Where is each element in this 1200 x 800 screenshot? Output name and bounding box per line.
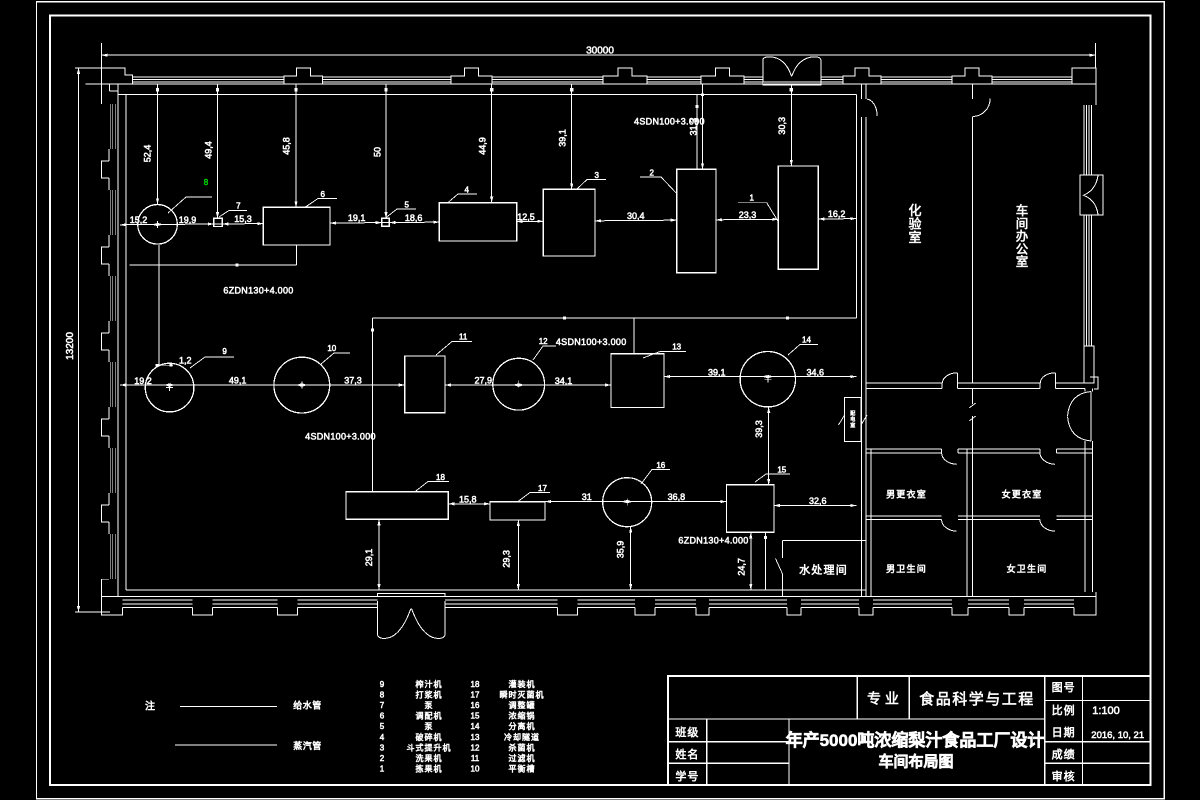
svg-text:学号: 学号 (675, 769, 699, 783)
svg-text:斗式提升机: 斗式提升机 (407, 742, 452, 752)
svg-text:成绩: 成绩 (1052, 748, 1076, 761)
svg-text:16: 16 (656, 461, 665, 470)
svg-text:45,8: 45,8 (282, 137, 292, 155)
svg-text:49,1: 49,1 (229, 376, 247, 386)
svg-text:15,8: 15,8 (459, 494, 477, 504)
equipment 11 (rect) (405, 356, 445, 413)
door into lab at partition top (867, 99, 877, 116)
svg-text:14: 14 (802, 336, 811, 345)
svg-text:31: 31 (582, 492, 592, 502)
lab door (south) (942, 373, 957, 383)
svg-text:办: 办 (1016, 229, 1029, 244)
svg-text:拣果机: 拣果机 (416, 764, 443, 774)
svg-text:11: 11 (471, 754, 480, 763)
svg-text:3: 3 (594, 171, 599, 180)
label 7 (219, 202, 247, 218)
svg-text:12,5: 12,5 (517, 212, 535, 222)
svg-text:9: 9 (222, 347, 227, 356)
legend equipment list (380, 679, 545, 774)
svg-text:室: 室 (908, 230, 921, 245)
svg-text:15,2: 15,2 (130, 215, 148, 225)
svg-text:30,3: 30,3 (777, 117, 787, 135)
vert dim 39,1 (557, 84, 573, 189)
svg-text:14: 14 (471, 722, 480, 731)
svg-text:34,6: 34,6 (807, 367, 825, 377)
svg-text:15,3: 15,3 (234, 214, 252, 224)
svg-text:29,1: 29,1 (364, 549, 374, 567)
label 11 (436, 333, 472, 356)
svg-text:专 业: 专 业 (867, 691, 899, 707)
svg-text:给水管: 给水管 (293, 700, 322, 711)
svg-text:女更衣室: 女更衣室 (1002, 489, 1043, 500)
svg-text:12: 12 (471, 743, 480, 752)
svg-text:23,3: 23,3 (739, 210, 757, 220)
svg-text:27,9: 27,9 (475, 375, 493, 385)
vert dim 29,1 (364, 519, 380, 590)
equipment 13 (rect) (611, 354, 664, 408)
equipment 15 (rect) (726, 485, 774, 532)
svg-text:16,2: 16,2 (828, 209, 846, 219)
right wall south section (1085, 377, 1098, 592)
dim chain top row (120, 209, 856, 226)
rooms west wall (870, 449, 872, 597)
svg-text:泵: 泵 (425, 701, 434, 710)
svg-text:8: 8 (380, 690, 385, 699)
vert dim 49,4 (204, 84, 220, 218)
label 12 (533, 337, 556, 360)
water pipe to eq6 (129, 245, 296, 266)
svg-text:比例: 比例 (1052, 703, 1076, 717)
svg-text:39,1: 39,1 (708, 367, 726, 377)
vert dim 50 (373, 84, 388, 218)
svg-text:1,2: 1,2 (179, 355, 192, 365)
bottom wall window strips (123, 600, 1075, 607)
svg-text:班级: 班级 (675, 726, 699, 739)
svg-text:洗果机: 洗果机 (416, 753, 443, 763)
svg-text:10: 10 (327, 344, 336, 353)
svg-text:年产5000吨浓缩梨汁食品工厂设计: 年产5000吨浓缩梨汁食品工厂设计 (786, 730, 1045, 750)
svg-text:室: 室 (1016, 254, 1029, 269)
svg-text:审核: 审核 (1052, 769, 1076, 783)
corridor divider (969, 389, 976, 449)
door into office (972, 98, 990, 116)
left wall window strips (110, 104, 115, 579)
dim 30000 top (102, 43, 1096, 84)
equipment 12 (circle) (493, 358, 545, 410)
svg-text:分离机: 分离机 (509, 721, 536, 731)
svg-text:19,2: 19,2 (134, 376, 152, 386)
equipment 10 (circle) (274, 357, 330, 413)
svg-text:18: 18 (436, 473, 445, 482)
svg-text:2: 2 (380, 754, 385, 763)
svg-text:3: 3 (380, 743, 385, 752)
svg-text:5: 5 (404, 201, 409, 210)
svg-text:5: 5 (380, 722, 385, 731)
vert dim 31,3 + steam drop (688, 84, 704, 169)
label 9 (190, 347, 234, 368)
svg-text:瞬时灭菌机: 瞬时灭菌机 (500, 689, 545, 699)
office door (south) (1040, 373, 1055, 383)
label 8 (green) (168, 178, 212, 213)
label 15 (755, 466, 790, 483)
svg-text:13: 13 (672, 343, 681, 352)
legend water pipe line (180, 700, 322, 711)
top wall inner face (86, 83, 1096, 85)
svg-text:39,1: 39,1 (557, 129, 567, 147)
washroom doors (942, 520, 957, 532)
svg-text:调整罐: 调整罐 (509, 700, 536, 710)
svg-text:6: 6 (380, 712, 385, 721)
circle center marks (154, 221, 771, 506)
label 18 (415, 473, 449, 492)
equipment 6 (rect) (263, 207, 330, 245)
svg-text:4SDN100+3.000: 4SDN100+3.000 (305, 432, 376, 442)
svg-text:24,7: 24,7 (736, 558, 746, 576)
title block texts (675, 681, 1144, 783)
svg-text:2: 2 (649, 169, 654, 178)
vert dim 35,9 (615, 527, 632, 590)
svg-text:16: 16 (471, 701, 480, 710)
vert dim 39,3 (754, 407, 770, 485)
right wall windows (1084, 105, 1092, 346)
top wall double door (763, 57, 821, 85)
right wall pier (1084, 346, 1094, 383)
svg-text:17: 17 (471, 690, 480, 699)
hoist box (839, 398, 868, 442)
top wall piers (102, 68, 1096, 105)
svg-text:34,1: 34,1 (555, 376, 573, 386)
svg-text:4: 4 (380, 733, 385, 742)
equipment 2 (rect) (677, 169, 716, 272)
top wall window strips (133, 77, 1073, 82)
dim chain middle row (120, 355, 856, 386)
svg-text:1: 1 (749, 194, 754, 203)
svg-text:榨汁机: 榨汁机 (416, 679, 443, 689)
water pipe along top wall (118, 93, 857, 95)
vert dim 44,9 (477, 84, 493, 203)
svg-text:31,3: 31,3 (688, 118, 698, 136)
wall between lab and office (971, 85, 973, 384)
svg-text:35,9: 35,9 (615, 541, 625, 559)
svg-text:图号: 图号 (1052, 681, 1076, 694)
dim chain bottom row (448, 492, 856, 507)
label 13 (643, 343, 686, 359)
svg-text:15: 15 (777, 466, 786, 475)
label 2 (640, 169, 677, 194)
right wall window symbol (1080, 175, 1103, 215)
dim 13200 left (65, 68, 125, 612)
equipment 8 (circle) (138, 205, 178, 245)
svg-text:过滤机: 过滤机 (509, 753, 536, 763)
svg-text:6ZDN130+4.000: 6ZDN130+4.000 (678, 536, 748, 546)
svg-text:食品科学与工程: 食品科学与工程 (919, 691, 1035, 708)
svg-text:灌装机: 灌装机 (509, 679, 536, 689)
svg-text:11: 11 (459, 333, 468, 342)
svg-text:17: 17 (538, 484, 547, 493)
svg-text:注: 注 (145, 699, 155, 712)
svg-text:49,4: 49,4 (204, 141, 214, 159)
svg-text:8: 8 (204, 178, 209, 187)
svg-text:18,6: 18,6 (405, 213, 423, 223)
vert dim 45,8 (282, 84, 298, 207)
label 1 (738, 194, 778, 222)
mini dim 1,2 (156, 364, 173, 366)
svg-text:50: 50 (373, 147, 383, 157)
svg-text:女卫生间: 女卫生间 (1007, 563, 1048, 574)
partition wall (main hall | east rooms) (862, 85, 867, 597)
svg-text:4SDN100+3.000: 4SDN100+3.000 (556, 337, 627, 347)
svg-text:男卫生间: 男卫生间 (886, 563, 927, 574)
svg-text:19,9: 19,9 (179, 215, 197, 225)
rooms center wall (967, 449, 972, 597)
label 3 (577, 171, 606, 189)
svg-text:9: 9 (380, 680, 385, 689)
equipment 17 (rect) (490, 502, 545, 520)
left wall inner face (117, 84, 119, 596)
svg-text:杀菌机: 杀菌机 (509, 742, 536, 752)
label 6 (305, 190, 337, 207)
svg-text:日期: 日期 (1052, 726, 1076, 739)
pipe along bottom (126, 589, 866, 591)
svg-text:52,4: 52,4 (143, 145, 153, 163)
label 14 (788, 336, 818, 356)
svg-text:车: 车 (1016, 203, 1029, 218)
changing room doors (942, 453, 957, 464)
steam pipe (371, 94, 856, 491)
svg-text:13200: 13200 (65, 332, 76, 360)
svg-text:19,1: 19,1 (348, 213, 366, 223)
equipment 14 (circle) (740, 352, 795, 407)
bottom wall piers (102, 592, 1096, 615)
svg-text:冷却隧道: 冷却隧道 (504, 732, 540, 742)
bottom wall double door (378, 594, 446, 639)
svg-text:12: 12 (539, 337, 548, 346)
water treatment room (776, 541, 867, 597)
vert dim 52,4 (143, 84, 160, 204)
equipment 18 (rect) (346, 492, 448, 520)
svg-text:室: 室 (850, 422, 855, 429)
label 16 (641, 461, 670, 484)
office south wall (866, 383, 1092, 389)
svg-text:18: 18 (471, 680, 480, 689)
right wall double entry door (1068, 392, 1092, 442)
vert dim 29,3 (502, 520, 520, 590)
svg-text:32,6: 32,6 (809, 496, 827, 506)
svg-text:29,3: 29,3 (502, 550, 512, 568)
pipe eq8 to eq9 (158, 245, 160, 366)
svg-text:电: 电 (850, 416, 855, 423)
svg-text:6ZDN130+4.000: 6ZDN130+4.000 (223, 286, 293, 296)
vert dim 30,3 (777, 85, 793, 166)
water pipe along left wall (125, 94, 127, 590)
svg-text:破碎机: 破碎机 (416, 732, 443, 742)
svg-text:水处理间: 水处理间 (799, 564, 848, 577)
svg-text:36,8: 36,8 (668, 492, 686, 502)
svg-text:4: 4 (464, 186, 469, 195)
svg-text:男更衣室: 男更衣室 (886, 489, 927, 500)
label 5 (386, 201, 416, 218)
label 4 (448, 186, 477, 203)
pipe below eq15 (764, 532, 767, 590)
left wall piers (102, 149, 110, 596)
svg-text:7: 7 (380, 701, 385, 710)
svg-text:30,4: 30,4 (627, 211, 645, 221)
svg-text:姓名: 姓名 (675, 747, 699, 761)
svg-text:44,9: 44,9 (477, 137, 487, 155)
svg-text:39,3: 39,3 (754, 420, 764, 438)
label 10 (321, 344, 350, 364)
legend steam pipe line (175, 740, 322, 751)
svg-text:蒸汽管: 蒸汽管 (293, 740, 322, 751)
svg-text:6: 6 (320, 190, 325, 199)
svg-text:7: 7 (236, 202, 241, 211)
equipment 1 (rect) (778, 166, 818, 269)
svg-text:30000: 30000 (586, 46, 614, 57)
changing rooms north wall (866, 449, 1092, 453)
svg-text:打浆机: 打浆机 (416, 689, 443, 699)
label 17 (518, 484, 550, 502)
svg-text:13: 13 (471, 733, 480, 742)
svg-text:15: 15 (471, 712, 480, 721)
title block frame (668, 676, 1151, 785)
svg-text:2016, 10, 21: 2016, 10, 21 (1091, 730, 1144, 741)
equipment 16 (circle) (603, 478, 652, 527)
equipment 9 (circle) (145, 363, 194, 412)
svg-text:泵: 泵 (425, 722, 434, 731)
vert dim 24,7 (736, 532, 752, 590)
equipment 5 (small square) (382, 218, 390, 226)
svg-text:10: 10 (471, 765, 480, 774)
equipment 3 (rect) (543, 189, 595, 256)
svg-text:1:100: 1:100 (1092, 705, 1120, 717)
svg-text:1: 1 (380, 765, 385, 774)
svg-text:车间布局图: 车间布局图 (878, 752, 953, 770)
svg-text:平衡槽: 平衡槽 (509, 764, 536, 774)
svg-text:调配机: 调配机 (416, 711, 443, 721)
equipment 4 (rect) (439, 203, 516, 241)
equipment 7 (small square) (214, 218, 222, 226)
svg-text:37,3: 37,3 (344, 376, 362, 386)
svg-text:浓缩锅: 浓缩锅 (509, 711, 536, 721)
bottom wall inner face (102, 595, 1096, 597)
washroom north wall (866, 516, 1092, 520)
